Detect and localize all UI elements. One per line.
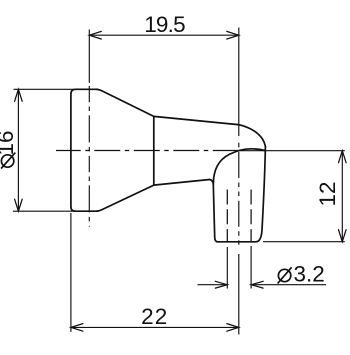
dim line 12 [341,151,343,242]
svg-text:19.5: 19.5 [144,12,185,37]
arrow 12 bottom [339,230,347,242]
dim line Ø16 [17,89,19,211]
ext 22 left [70,213,72,332]
ext 12 top [239,150,345,152]
arrow 22 left [71,324,83,332]
arrow 12 top [339,151,347,163]
ext Ø16 top [14,88,76,90]
vertical axis centerline (middle) [238,143,240,248]
dim line 22 [71,326,239,328]
left edge of vertical outlet [213,185,214,237]
svg-text:16: 16 [0,130,18,155]
bottom-left corner [215,237,218,242]
flange vertical centerline [88,86,90,227]
ext Ø3.2 right [250,246,252,289]
arrow Ø16 top [15,89,23,101]
horizontal axis centerline [56,150,239,152]
elbow inner bend silhouette (dome) [213,149,265,185]
dim line 19.5 [89,34,239,36]
tube top edge [154,116,238,124]
arrow Ø3.2 right [251,281,263,288]
arrow 19.5 right [227,31,239,39]
ext 12 bottom [263,241,345,243]
dim line Ø3.2 left tail [198,284,228,286]
tube bottom edge [154,180,210,186]
centerlines [56,86,239,248]
taper bottom edge [97,185,154,211]
svg-text:22: 22 [141,304,168,329]
arrow 19.5 left [89,31,101,39]
arrow 22 right [227,324,239,332]
bottom face [218,241,256,243]
taper top edge [97,89,154,116]
junction line [153,116,155,185]
svg-text:3.2: 3.2 [294,262,325,287]
flange Ø16 body [71,89,98,211]
text Ø3.2 with drawn diameter symbol [278,262,325,287]
right edge of vertical outlet [256,147,266,242]
ext 19.5 left (solid above flange) [88,30,90,83]
dim line Ø3.2 right leader [251,284,326,286]
ext 19.5 right / axis solid top [238,28,240,137]
corner into tube bottom edge [210,180,214,185]
svg-text:12: 12 [315,181,340,206]
text Ø16 with drawn diameter symbol (rotated) [1,155,13,167]
ext Ø16 bottom [13,210,75,212]
axis solid bottom (ext for 22 right) [238,254,240,335]
ext Ø3.2 left [226,247,228,289]
part outline: flange, taper, nozzle body [71,89,266,242]
hidden hole lines Ø3.2 [227,190,251,242]
arrow Ø3.2 left [215,281,227,288]
arrow Ø16 bottom [15,199,23,211]
elbow outer curve [238,125,265,147]
